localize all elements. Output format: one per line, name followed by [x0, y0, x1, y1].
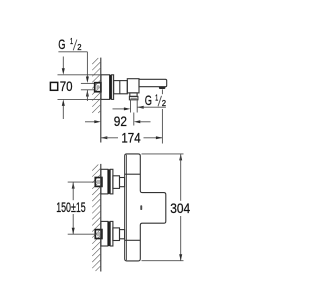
- outlet nipple G1/2 lines: [131, 100, 138, 113]
- wall line (front view): [100, 164, 102, 272]
- spout: [139, 79, 167, 86]
- aerator extension line: [161, 89, 163, 143]
- lower flange plate: [101, 221, 113, 246]
- label 174: [121, 130, 140, 146]
- mixer body outline (front view): [125, 154, 166, 261]
- label 150±15: [56, 200, 86, 215]
- shower outlet nut: [129, 96, 138, 99]
- dimension square 70: extension lines: [58, 75, 102, 100]
- lower union nut inner: [97, 232, 100, 236]
- upper flange plate: [101, 169, 113, 194]
- label 304: [170, 201, 190, 216]
- body neck: [114, 81, 128, 94]
- supply pipe behind wall: [81, 83, 95, 89]
- supply thread dim arrows (outside): [86, 77, 89, 102]
- wall line (side view): [100, 58, 102, 143]
- bottom handle joint line: [125, 239, 141, 241]
- upper union nut: [95, 178, 102, 187]
- wall hatching (front view): [92, 165, 101, 272]
- svg-text:92: 92: [114, 113, 127, 129]
- svg-text:150±15: 150±15: [56, 200, 86, 215]
- svg-text:G: G: [145, 93, 152, 108]
- leader line from G1/2 top label: [58, 52, 87, 77]
- wall hatching (side view): [92, 58, 101, 113]
- svg-text:70: 70: [60, 78, 73, 94]
- label G1/2 (top, supply thread): [58, 37, 81, 52]
- dimension 304: extension lines: [142, 154, 184, 261]
- svg-text:304: 304: [170, 201, 190, 216]
- dimension 150±15: dim line inside arrows: [72, 182, 75, 234]
- label G1/2 (bottom, shower outlet thread): [145, 93, 166, 108]
- handle block (cube): [127, 79, 139, 93]
- shower outlet collar under block: [130, 93, 137, 97]
- outlet thread dim arrows + leader underline: [113, 106, 166, 111]
- svg-text:174: 174: [121, 130, 140, 146]
- upper adapter pieces: [113, 176, 125, 189]
- svg-text:1: 1: [70, 37, 73, 46]
- svg-text:G: G: [58, 37, 65, 52]
- lower adapter pieces: [113, 228, 125, 241]
- logo mark on outlet block: [140, 205, 142, 210]
- svg-text:2: 2: [77, 43, 81, 52]
- dimension 174: dim line inside arrows: [101, 136, 163, 139]
- svg-text:1: 1: [155, 94, 158, 103]
- label square-70: [50, 78, 72, 94]
- top handle joint line: [125, 173, 141, 175]
- aerator nib under spout end: [159, 87, 166, 89]
- lower union nut: [95, 230, 102, 239]
- union nut behind wall: [95, 83, 101, 92]
- label 92: [114, 113, 127, 129]
- outlet axis extension line: [133, 113, 135, 126]
- upper union nut inner: [97, 180, 100, 184]
- escutcheon plate (side view): [101, 75, 114, 100]
- dimension 304: dim line inside arrows: [179, 154, 182, 261]
- svg-text:2: 2: [162, 99, 166, 108]
- dimension square 70: dim line + outside arrows: [62, 57, 65, 120]
- lower supply extension line: [68, 233, 102, 235]
- upper supply extension line: [68, 181, 102, 183]
- dimension 92: outside arrows: [85, 120, 151, 123]
